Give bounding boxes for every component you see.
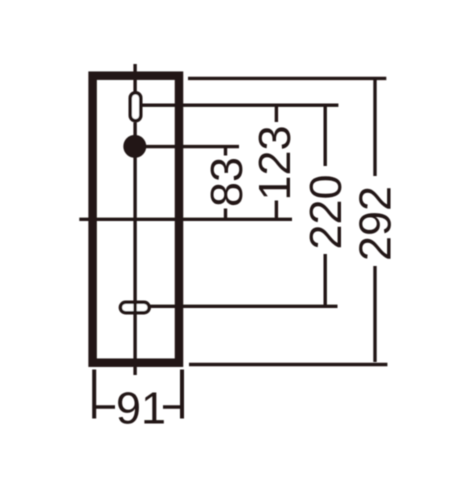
dimension text 220 xyxy=(310,176,342,247)
dimension text 91 xyxy=(118,392,164,424)
centerline upper segment xyxy=(133,64,136,92)
mounting plate outline xyxy=(93,76,179,363)
mounting hole (filled circle) xyxy=(123,135,146,158)
dimension line 83 xyxy=(224,147,227,156)
reference line xyxy=(79,218,292,221)
bottom slot leader line xyxy=(149,305,338,308)
dimension line 220 xyxy=(324,105,327,166)
dimension text 123 xyxy=(259,127,291,197)
centerline lower segment xyxy=(133,123,136,376)
dimension line 292 xyxy=(373,78,376,176)
bottom slot (horizontal obround) xyxy=(120,302,149,312)
dimension text 292 xyxy=(359,188,391,259)
right extension line (91) xyxy=(180,370,184,419)
circle leader line xyxy=(135,145,239,148)
dimension line 123 xyxy=(275,105,278,122)
dimension line 91 xyxy=(94,405,115,408)
top slot (vertical obround) xyxy=(130,93,141,121)
top extension line (292) xyxy=(188,77,386,80)
dimension text 83 xyxy=(211,159,243,205)
top slot leader line xyxy=(141,103,338,106)
bottom extension line (292) xyxy=(189,363,387,366)
left extension line (91) xyxy=(92,370,96,419)
